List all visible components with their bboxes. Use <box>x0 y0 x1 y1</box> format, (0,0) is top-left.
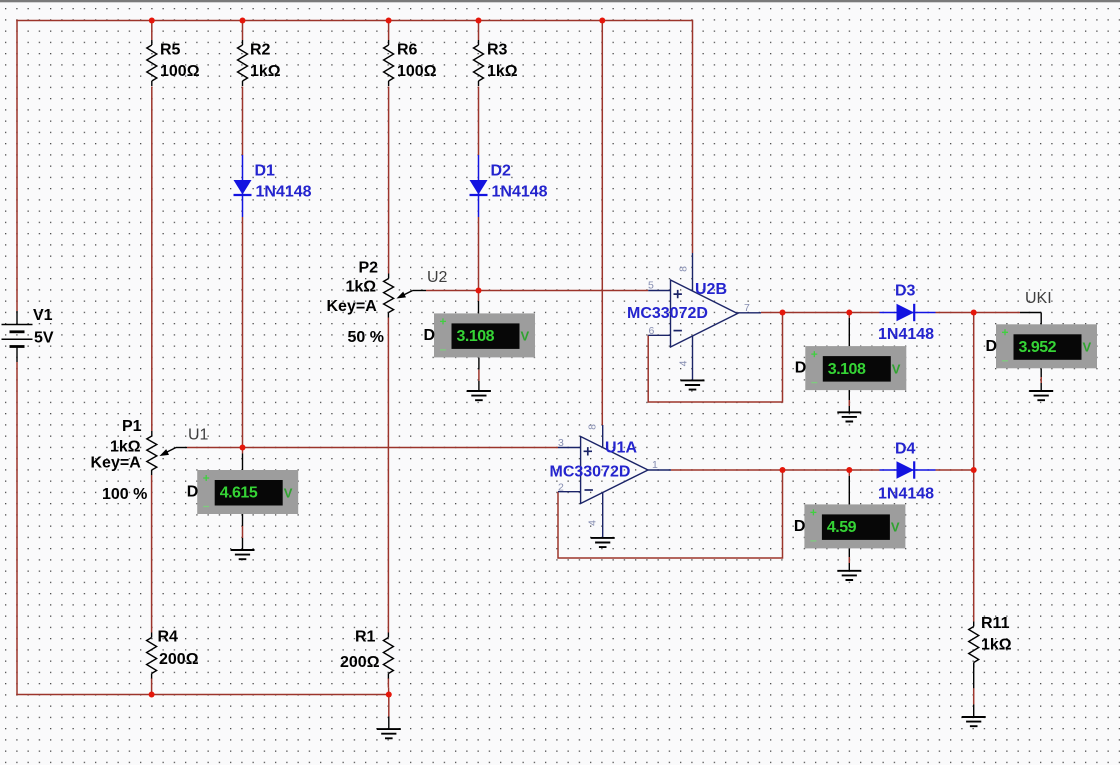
svg-text:R4: R4 <box>158 629 179 646</box>
U2B pin 4 stub (V-) <box>692 336 694 380</box>
voltmeter UKI (3.952) (3.952 V) <box>996 324 1097 368</box>
svg-text:100 %: 100 % <box>102 486 147 503</box>
svg-text:U2B: U2B <box>695 281 727 298</box>
resistor R6 <box>384 45 394 81</box>
wire: D4 cathode to node <box>936 469 974 471</box>
U1A - input mark <box>585 489 593 491</box>
svg-text:R6: R6 <box>397 42 418 59</box>
U1A pin 3 stub (+in) <box>558 447 581 449</box>
svg-text:P2: P2 <box>359 260 379 277</box>
potentiometer P2 wiper arrow <box>397 291 427 299</box>
wire: meter U1 to ground <box>242 514 244 526</box>
ground meter U2 <box>467 391 491 400</box>
wire: R2 column top rail to R2 <box>242 21 244 41</box>
junction R3 top rail <box>476 18 482 24</box>
junction D4 cathode node <box>971 467 977 473</box>
wire: meter D3 to ground <box>848 390 850 400</box>
junction D3 meter tap <box>846 310 852 316</box>
svg-text:V: V <box>891 520 900 535</box>
voltmeter U2 (3.108) (3.108 V) <box>434 313 535 357</box>
svg-text:R3: R3 <box>487 42 508 59</box>
ground meter D3 <box>837 412 861 421</box>
svg-text:Key=A: Key=A <box>91 455 142 472</box>
wire: U1A output to D4 <box>671 469 880 471</box>
svg-text:D: D <box>795 360 807 377</box>
svg-text:U2: U2 <box>427 269 448 286</box>
svg-text:4: 4 <box>678 360 690 366</box>
wire: top +V rail <box>16 20 692 22</box>
voltmeter D3 out (3.108) (3.108 V) <box>805 346 906 390</box>
potentiometer P1 body <box>147 436 157 470</box>
wire: D3/D4 output node column to R11 <box>973 313 975 622</box>
junction R5 top rail <box>149 18 155 24</box>
svg-text:D1: D1 <box>255 163 276 180</box>
voltmeter D4 out (4.59) (4.59 V) <box>804 504 905 548</box>
svg-text:50 %: 50 % <box>348 329 384 346</box>
potentiometer P2 body <box>384 279 394 313</box>
junction P1 wiper node U1 <box>240 445 246 451</box>
svg-text:P1: P1 <box>122 418 142 435</box>
op-amp U1A triangle <box>581 437 648 504</box>
svg-text:3.952: 3.952 <box>1019 339 1057 356</box>
svg-text:4.59: 4.59 <box>827 519 857 536</box>
U1A + input mark <box>584 447 592 455</box>
wire: meter D4 to ground <box>848 548 850 557</box>
battery V1 (5V) <box>2 311 33 362</box>
wire: R6 column top rail to R6 <box>388 21 390 41</box>
ground meter UKI <box>1029 391 1053 400</box>
wire: left rail lower (V1 - to bottom rail) <box>16 362 18 695</box>
wire: meter U2 to ground <box>478 358 480 370</box>
wire: D3 cathode to node <box>936 312 975 314</box>
resistor R4 <box>147 638 157 674</box>
wire: R5 column top rail to R5 <box>151 21 153 41</box>
ground U2B V- <box>681 380 705 389</box>
svg-text:Key=A: Key=A <box>327 298 378 315</box>
svg-text:D2: D2 <box>491 163 512 180</box>
svg-text:D4: D4 <box>895 441 916 458</box>
ground meter D4 <box>837 571 861 580</box>
wire: P2 wiper row to U2B pin 5 <box>426 290 648 292</box>
wire: P1 wiper row to U1A pin 3 <box>187 447 558 449</box>
wire: U2B feedback loop pin 6 to output <box>648 313 782 403</box>
svg-text:5: 5 <box>648 280 654 292</box>
wire: D2 to P2 wiper junction <box>478 217 480 291</box>
svg-text:200Ω: 200Ω <box>340 654 380 671</box>
svg-text:1: 1 <box>652 459 658 471</box>
svg-text:100Ω: 100Ω <box>160 63 200 80</box>
U2B + input mark <box>674 290 682 298</box>
svg-text:1N4148: 1N4148 <box>492 184 548 201</box>
resistor R5 <box>147 45 157 81</box>
svg-text:V: V <box>892 361 901 376</box>
junction U1A V+ top rail <box>599 18 605 24</box>
wire: D3 meter tap <box>848 313 850 319</box>
svg-text:1N4148: 1N4148 <box>878 326 934 343</box>
wire: left rail upper (V1 + to top rail) <box>16 20 18 311</box>
U1A pin 4 stub (V-) <box>602 493 604 538</box>
voltmeter U1 (4.615) (4.615 V) <box>197 470 298 514</box>
resistor R1 <box>383 638 393 674</box>
wire: R3 column top rail to R3 <box>478 21 480 41</box>
svg-text:R1: R1 <box>355 629 376 646</box>
svg-text:V1: V1 <box>33 307 53 324</box>
svg-text:8: 8 <box>678 266 690 272</box>
U1A pin 2 stub (-in) <box>558 491 581 493</box>
svg-text:100Ω: 100Ω <box>397 63 437 80</box>
svg-text:MC33072D: MC33072D <box>627 305 708 322</box>
svg-text:4: 4 <box>587 520 599 526</box>
svg-text:UKI: UKI <box>1025 290 1052 307</box>
junction P2 wiper node U2 <box>476 288 482 294</box>
wire: D4 meter tap <box>848 470 850 476</box>
svg-text:1kΩ: 1kΩ <box>487 63 518 80</box>
ground R11 <box>962 717 986 726</box>
svg-text:200Ω: 200Ω <box>159 651 199 668</box>
wire: R2 to D1 <box>242 87 244 156</box>
svg-text:2: 2 <box>558 482 564 494</box>
svg-text:3.108: 3.108 <box>828 361 866 378</box>
diode D2 (1N4148, cathode down) <box>470 155 488 217</box>
wire: bottom rail to ground stub <box>388 695 390 717</box>
svg-text:D: D <box>187 484 199 501</box>
wire: junction to voltmeter U2 tap <box>478 291 480 302</box>
wire: top rail junction down to U1A pin 8 <box>601 21 603 426</box>
svg-text:V: V <box>1083 340 1092 355</box>
wire: U1A feedback loop pin 2 to output <box>558 470 783 558</box>
wire: R5 to P1 <box>151 87 153 432</box>
wire: top rail corner down to U2B pin 8 <box>692 20 694 253</box>
wire: P2 to R1 <box>387 318 389 633</box>
junction R4 bottom rail <box>149 692 155 698</box>
ground meter U1 <box>231 550 255 559</box>
diode D1 (1N4148, cathode down) <box>234 155 252 217</box>
svg-text:1kΩ: 1kΩ <box>250 63 281 80</box>
svg-text:5V: 5V <box>34 330 54 347</box>
svg-text:R2: R2 <box>250 42 271 59</box>
svg-text:D: D <box>794 518 806 535</box>
svg-text:1kΩ: 1kΩ <box>981 637 1012 654</box>
svg-text:1kΩ: 1kΩ <box>346 279 377 296</box>
svg-text:1N4148: 1N4148 <box>256 184 312 201</box>
U1A pin 8 stub (V+) <box>602 425 604 447</box>
potentiometer P1 wiper arrow <box>160 448 188 457</box>
svg-text:D: D <box>424 327 436 344</box>
svg-text:1kΩ: 1kΩ <box>110 439 141 456</box>
svg-text:U1: U1 <box>188 427 209 444</box>
wire: bottom ground rail <box>16 694 389 696</box>
junction D3 cathode node <box>971 310 977 316</box>
svg-text:MC33072D: MC33072D <box>550 464 631 481</box>
junction R1 bottom rail <box>386 692 392 698</box>
wire: R6 to P2 <box>388 87 390 274</box>
svg-text:7: 7 <box>744 302 750 314</box>
top window border <box>0 0 1120 2</box>
U1A pin 1 stub (out) <box>648 469 671 471</box>
wire: D1 to P1 wiper junction <box>242 217 244 448</box>
wire: junction to voltmeter U1 tap <box>242 448 244 454</box>
junction U2B output <box>780 310 786 316</box>
junction U1A output <box>780 467 786 473</box>
resistor R11 <box>969 627 979 663</box>
wire: meter UKI to ground <box>1040 368 1042 377</box>
svg-text:R5: R5 <box>160 42 181 59</box>
U2B pin 7 stub (out) <box>738 312 762 314</box>
svg-text:8: 8 <box>587 424 599 430</box>
ground U1A V- <box>591 538 615 547</box>
svg-text:D3: D3 <box>895 283 916 300</box>
svg-text:D: D <box>986 338 998 355</box>
svg-text:1N4148: 1N4148 <box>878 486 934 503</box>
svg-text:4.615: 4.615 <box>220 485 258 502</box>
svg-text:V: V <box>521 329 530 344</box>
junction R6 top rail <box>386 18 392 24</box>
svg-text:V: V <box>284 485 293 500</box>
op-amp U2B triangle <box>671 280 738 347</box>
U2B pin 5 stub (+in) <box>648 290 670 292</box>
wire: node to UKI meter corner <box>974 312 1020 314</box>
svg-text:R11: R11 <box>981 615 1010 632</box>
ground R1 rail <box>377 729 401 738</box>
diode D3 (1N4148, cathode right) <box>880 304 936 321</box>
U2B - input mark <box>674 330 682 332</box>
U2B pin 8 stub (V+) <box>692 253 694 291</box>
svg-text:6: 6 <box>649 325 655 337</box>
wire: R3 to D2 <box>478 87 480 156</box>
resistor R3 <box>474 45 484 81</box>
wire: P1 to R4 <box>151 475 153 633</box>
wire: R4 to bottom rail <box>151 678 153 695</box>
diode D4 (1N4148, cathode right) <box>880 461 936 478</box>
svg-text:U1A: U1A <box>605 440 637 457</box>
junction D4 meter tap <box>846 467 852 473</box>
svg-text:3: 3 <box>558 437 564 449</box>
junction R2 top rail <box>240 18 246 24</box>
wire: R1 to bottom rail <box>387 678 389 688</box>
wire: R11 bottom to ground <box>973 663 975 689</box>
svg-text:3.108: 3.108 <box>457 328 495 345</box>
U2B pin 6 stub (-in) <box>648 334 670 336</box>
resistor R2 <box>238 45 248 81</box>
wire: U2B output to D3 <box>761 312 880 314</box>
